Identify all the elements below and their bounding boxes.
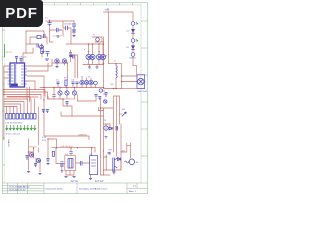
wire cap c6 drop — [70, 50, 72, 62]
bridge rectifier B1 inner — [138, 78, 144, 84]
diode D1 arrow — [131, 29, 135, 33]
capacitor C16 — [116, 126, 118, 131]
wire top cluster C4 — [73, 21, 75, 35]
module X1 text bars — [91, 160, 96, 166]
bridge rectifier B1 box — [137, 75, 145, 89]
connector pin P3 — [98, 97, 101, 101]
transistor T18 — [84, 80, 88, 84]
diode D5 — [118, 158, 121, 161]
svg-text:OPTION: OPTION — [28, 147, 37, 149]
transistor T20 legs — [59, 92, 61, 95]
diode D2 arrow — [131, 46, 135, 50]
svg-text:T6: T6 — [98, 52, 100, 54]
ground G13 — [47, 164, 50, 165]
capacitor C9 above IC — [15, 57, 18, 64]
transistor T21 below rail — [65, 91, 69, 95]
wire long vertical net x103 — [103, 37, 105, 88]
frame inner border top — [3, 4, 142, 6]
svg-text:WAHL K.: WAHL K. — [7, 140, 10, 149]
transistor T12 — [104, 126, 108, 130]
transistor T17 — [80, 80, 84, 84]
capacitor C28 — [66, 102, 69, 106]
wire rail hang stubs — [58, 78, 96, 88]
transistor T10 — [29, 153, 33, 157]
capacitor C23 — [47, 159, 50, 163]
capacitor C20 — [76, 82, 79, 85]
svg-text:10 11 12 13 14 15: 10 11 12 13 14 15 — [6, 134, 20, 136]
svg-text:R7: R7 — [64, 78, 67, 80]
ground G14 — [42, 52, 45, 53]
svg-text:D1: D1 — [127, 31, 129, 33]
ground G9 — [89, 179, 92, 180]
ground G12 — [56, 67, 59, 68]
svg-text:K S1 S2 S3 S4 GN D: K S1 S2 S3 S4 GN D — [6, 123, 24, 125]
frame outer border — [3, 3, 148, 194]
svg-text:2x5: 2x5 — [111, 84, 114, 86]
wire bus0 line3 — [4, 95, 41, 100]
capacitor C25 — [46, 110, 49, 114]
ground G3 — [45, 59, 49, 60]
capacitor C11 — [34, 164, 37, 168]
wire circles bottom rail — [83, 60, 104, 65]
wire ic left stubs — [4, 66, 8, 78]
capacitor C3 — [66, 26, 68, 30]
LED D2 body — [131, 39, 135, 43]
diode D2 bar — [131, 49, 135, 51]
transistor T13 body — [113, 158, 118, 172]
wire cap C2 branch — [50, 30, 64, 35]
transistor T6 — [90, 54, 95, 59]
title block text — [9, 180, 137, 193]
wire left resistor drop — [41, 44, 43, 57]
svg-text:T9: T9 — [104, 120, 107, 122]
ground G5 — [27, 172, 30, 173]
wire right vertical x121 — [121, 64, 123, 89]
wire relay box bottom — [90, 175, 92, 179]
svg-text:10m: 10m — [104, 56, 108, 58]
transistor T2 legs — [56, 60, 58, 63]
wire cap below rail — [53, 88, 55, 100]
ground G15 — [96, 67, 99, 68]
svg-text:8R: 8R — [136, 162, 139, 164]
transistor T22 legs — [74, 92, 76, 95]
transistor T15 legs — [105, 101, 107, 103]
transistor T16 — [99, 89, 102, 92]
capacitor C22 above IC — [20, 59, 23, 64]
ground G4 — [88, 67, 91, 68]
wire box right link — [76, 162, 90, 164]
svg-text:C1: C1 — [45, 18, 48, 20]
svg-text:C6: C6 — [72, 80, 75, 82]
speaker LS1 — [129, 159, 135, 165]
wire bus2 line1 — [4, 99, 28, 114]
svg-text:4u7 4u: 4u7 4u — [71, 180, 79, 183]
LED D1 body — [131, 22, 135, 26]
arrow symbol — [122, 112, 127, 117]
capacitor C29 — [70, 55, 74, 59]
transistor T23 — [40, 45, 44, 49]
wire below-circle drops — [90, 65, 98, 67]
capacitor C15 — [105, 93, 108, 98]
svg-text:12.05.2004 11:22: 12.05.2004 11:22 — [9, 189, 27, 191]
wire coil branch — [115, 64, 117, 89]
title block table — [3, 183, 148, 194]
wire long horiz y116 — [61, 112, 104, 116]
green arrow D1 — [136, 22, 138, 41]
wire circles top stubs — [89, 44, 104, 54]
frame column ticks top — [16, 3, 133, 5]
schematic wires — [4, 12, 137, 178]
capacitor C1 — [48, 20, 52, 27]
svg-text:T3: T3 — [88, 77, 91, 79]
wire bus0 line4 — [7, 96, 38, 98]
wire bottom feed y139 — [48, 139, 57, 158]
transistor T3 — [62, 59, 66, 63]
wire center rail y87.5 — [40, 87, 104, 89]
wire sub rail y99 — [48, 96, 72, 116]
capacitor C6 — [69, 52, 72, 57]
green pads under header — [6, 125, 37, 130]
diode D1 bar — [131, 32, 135, 34]
wire +UB top rail to diode chain — [104, 12, 134, 66]
svg-text:4u7 4u7: 4u7 4u7 — [95, 180, 104, 183]
wire lower-left cluster — [29, 139, 39, 170]
wire q2 drop — [67, 63, 69, 80]
wire left cap branch — [56, 148, 62, 171]
capacitor C5 — [46, 52, 50, 57]
frame inner border right — [140, 3, 142, 183]
ground G11 — [113, 172, 116, 173]
capacitor C27 — [37, 44, 39, 48]
wire vertical x108 to coil rail — [108, 12, 121, 64]
svg-text:T1: T1 — [93, 35, 96, 37]
wire right horiz y108 — [99, 108, 114, 111]
svg-text:R15: R15 — [122, 109, 127, 111]
transistor T5 legs — [87, 56, 90, 59]
transistor T1 — [96, 38, 100, 42]
transistor T20 below rail — [58, 91, 62, 95]
wire bus2 line2 — [4, 102, 24, 114]
wire box bottom drops — [66, 171, 74, 176]
wire ic bottom drops — [27, 87, 30, 102]
resistor R8 — [52, 152, 54, 157]
resistor R1 — [41, 48, 43, 54]
wire right triple verticals — [114, 96, 122, 170]
wire lower-left cluster2 — [36, 158, 40, 172]
wire bottom rail y147.7 — [52, 147, 95, 149]
wire mid-right part net2 — [112, 127, 118, 129]
transistor T21 legs — [66, 92, 68, 95]
transistor T22 below rail — [72, 91, 76, 95]
transistor T10 legs — [31, 154, 33, 157]
wire bus0 line2 — [4, 92, 48, 99]
svg-text:Impulswahl-Telefon: Impulswahl-Telefon — [46, 188, 65, 190]
wire junction dots — [3, 43, 122, 153]
transistor T11 — [36, 158, 40, 162]
capacitor C4 — [72, 24, 76, 32]
svg-text:S 12: S 12 — [42, 137, 47, 139]
wire top cluster C3 — [46, 21, 74, 33]
wire badge-right cap net — [50, 26, 54, 42]
wire bottom-right cluster — [103, 150, 110, 175]
wire center rail y44 right part — [66, 33, 104, 44]
wire cap row y44 — [26, 44, 42, 49]
svg-text:T2: T2 — [81, 77, 84, 79]
transistor T17 legs — [81, 81, 83, 84]
transistor T7 legs — [98, 56, 101, 59]
wire bus1 — [7, 97, 30, 100]
relay K1 outline — [65, 156, 76, 171]
transistor T2 — [55, 59, 59, 63]
wire bus2 line4 — [4, 107, 17, 114]
green junction left frame — [4, 44, 6, 57]
transistor T7 — [96, 54, 101, 59]
svg-text:L1: L1 — [114, 61, 116, 63]
ground G7 — [60, 171, 63, 172]
transistor T6 legs — [91, 56, 94, 59]
wire bus0 line1 — [4, 90, 45, 97]
wire bus2 line3 — [4, 104, 21, 114]
wire top right bend — [127, 143, 131, 158]
ground G2 — [73, 36, 76, 37]
transistor T18 legs — [86, 81, 88, 84]
wire ic right fan — [27, 59, 52, 90]
capacitor C14 — [81, 161, 83, 166]
ground G1 — [57, 36, 60, 37]
svg-text:BZX55: BZX55 — [130, 58, 137, 60]
wire left vertical x3.8 — [3, 66, 5, 140]
bridge rectifier B1 cross — [139, 79, 144, 84]
wire mid-right part net — [104, 94, 111, 131]
svg-text:R17: R17 — [109, 150, 114, 152]
ground G10 — [105, 137, 108, 138]
wire resistor R3 leads — [30, 37, 47, 44]
wire drop x44 — [43, 88, 45, 101]
relay K1 inner — [68, 159, 73, 169]
module X1 box — [90, 156, 98, 175]
transistor T3 legs — [64, 60, 66, 63]
svg-text:Blatt: 1: Blatt: 1 — [129, 190, 137, 193]
wire header stubs — [7, 99, 35, 114]
diode D4 — [109, 127, 112, 130]
capacitor C10 — [26, 156, 29, 161]
wire ic top link — [23, 48, 33, 63]
capacitor C18 — [57, 82, 60, 85]
wire horiz y136 — [44, 100, 89, 140]
frame inner border left — [4, 3, 6, 183]
IC U1 bottom bar — [11, 84, 18, 87]
red net labels — [6, 36, 87, 149]
svg-text:Schaltplan mit EAGLE 4.11r2: Schaltplan mit EAGLE 4.11r2 — [79, 187, 108, 190]
wire pair verticals x75 x77 — [71, 55, 78, 78]
svg-text:R 14: R 14 — [42, 140, 47, 142]
resistor R7 body — [65, 80, 67, 86]
svg-text:C3 100n: C3 100n — [64, 24, 72, 26]
svg-text:T5: T5 — [88, 52, 90, 54]
wire loop left vertical — [25, 31, 27, 53]
ground G6 — [39, 174, 42, 175]
inductor L1 coil — [116, 66, 117, 78]
wire mid node net — [92, 37, 104, 42]
capacitor C12 — [60, 162, 63, 166]
wire right twin vertical A — [101, 99, 111, 175]
svg-text:C9 C10: C9 C10 — [20, 57, 28, 59]
wire bottom-right diode link — [103, 159, 121, 174]
transistor T8 — [100, 54, 105, 59]
LED D3 body — [131, 53, 135, 57]
svg-text:C5: C5 — [56, 80, 59, 82]
wire relay box top — [92, 148, 95, 156]
wire bridge feeds — [122, 66, 138, 82]
svg-text:MCLR: MCLR — [6, 52, 12, 54]
capacitor C13 above K1 — [69, 152, 72, 154]
capacitor C17 — [108, 152, 111, 154]
components (blue) — [6, 20, 145, 180]
wire loop top — [26, 31, 44, 35]
capacitor C2 — [57, 28, 62, 32]
transistor T19 — [89, 80, 93, 84]
svg-text:gez. Muster: gez. Muster — [19, 186, 31, 189]
wire box left link — [63, 163, 65, 165]
speaker LS1 squiggle — [125, 161, 130, 163]
wire drop x38 to lower cluster — [37, 107, 39, 145]
capacitor C24 — [42, 110, 45, 114]
svg-text:1/1: 1/1 — [133, 186, 137, 188]
resistor R3 — [37, 36, 41, 39]
wire transistor row rail y63 — [52, 63, 68, 66]
IC U1 body — [10, 63, 25, 87]
blue labels — [6, 9, 148, 164]
capacitor C19 — [72, 82, 75, 85]
transistor T11 legs — [38, 159, 40, 162]
wire right rail y88.5 — [104, 88, 138, 90]
IC U1 inner column — [15, 64, 16, 86]
svg-text:NSA/NSI: NSA/NSI — [78, 134, 87, 137]
header JP1 pins — [6, 114, 36, 120]
frame row ticks left — [3, 30, 5, 165]
svg-text:B40C1500: B40C1500 — [138, 91, 148, 93]
PDF badge — [0, 0, 43, 27]
capacitor C21 below rail — [52, 95, 55, 97]
svg-text:D2: D2 — [127, 47, 129, 49]
transistor T5 — [86, 54, 91, 59]
wire arrow stub — [120, 113, 122, 115]
capacitor C26 — [44, 34, 46, 38]
wire top U net — [78, 95, 97, 101]
wire k1 cap stub — [70, 148, 72, 156]
wire below-rail transistor stubs — [60, 88, 75, 100]
transistor T14 — [94, 81, 98, 85]
capacitor C30 — [95, 95, 98, 97]
svg-text:+UB: +UB — [105, 9, 110, 12]
transistor T19 legs — [90, 81, 92, 84]
transistor T8 legs — [102, 56, 105, 59]
frame row ticks right — [141, 21, 148, 156]
IC U1 pins — [8, 66, 28, 84]
IC U1 pin names — [11, 66, 24, 84]
wire speaker link — [121, 143, 127, 152]
ground G8 — [65, 177, 76, 178]
transistor T15 — [104, 100, 107, 103]
wire right twin vertical B — [103, 108, 105, 152]
relay K1 inner bars — [70, 159, 72, 169]
svg-text:o: o — [84, 49, 86, 51]
